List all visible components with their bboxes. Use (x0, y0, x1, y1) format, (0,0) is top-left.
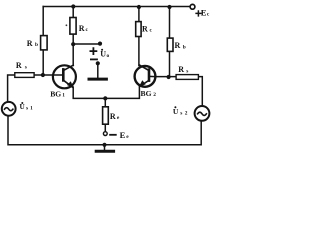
terminal -Ee (103, 132, 107, 136)
speck artifact left of Rc1 (66, 24, 68, 26)
ground mid (below -Uo terminal) (89, 61, 106, 79)
resistor Rc2 (136, 22, 141, 37)
svg-text:R: R (175, 41, 181, 50)
wire bottom ground rail with verticals to both sources (8, 116, 201, 145)
polarity sign + of Uo (90, 48, 96, 54)
svg-text:o: o (107, 53, 110, 59)
polarity sign + of Ec (196, 11, 201, 16)
terminal +Ec (190, 4, 195, 9)
svg-text:1: 1 (30, 105, 33, 111)
terminal +Uo (98, 42, 102, 46)
source Us2 (195, 106, 210, 121)
svg-text:U: U (100, 50, 106, 59)
node bottom rail ground junction (102, 143, 106, 147)
svg-text:s: s (180, 110, 182, 116)
node emitter junction (103, 96, 107, 100)
node base2 junction (167, 75, 171, 79)
source Us1 (2, 102, 16, 116)
wire Rb2 vertical (top rail to base node 2) (169, 7, 171, 77)
svg-text:1: 1 (62, 93, 65, 99)
ground bottom (96, 145, 113, 151)
polarity sign - of Uo (91, 58, 97, 60)
wire base lead right (BG2 base bar, through Rs2, corner down to Us2) (149, 76, 202, 106)
wire Rc2 vertical (top rail to BG2 collector) (138, 7, 140, 66)
wire emitter rail (BG1 emitter down, across, up to BG2 emitter) (73, 86, 139, 98)
svg-text:R: R (178, 65, 184, 74)
node top Rb2 junction (167, 5, 171, 9)
svg-text:BG: BG (141, 89, 152, 98)
resistor Rs2 (176, 75, 198, 80)
wire left branch vertical (top corner through Rb1 down to base node) (42, 7, 44, 76)
svg-text:2: 2 (153, 92, 156, 98)
svg-text:R: R (16, 61, 22, 70)
svg-text:s: s (25, 64, 27, 70)
resistor Re (103, 107, 109, 124)
svg-text:b: b (183, 44, 186, 50)
node top Rc1 junction (71, 4, 75, 8)
node collector1 Uo tap (71, 42, 75, 46)
node top Rc2 junction (137, 5, 141, 9)
resistor Rb1 (41, 36, 48, 50)
svg-text:s: s (26, 105, 28, 111)
svg-text:R: R (110, 112, 116, 121)
transistor BG1 (53, 65, 76, 88)
node base1 junction (41, 73, 45, 77)
svg-text:R: R (27, 39, 33, 48)
polarity sign - of Ee (110, 134, 116, 136)
svg-text:R: R (142, 25, 148, 34)
svg-text:BG: BG (50, 89, 61, 98)
svg-text:b: b (35, 42, 38, 48)
transistor BG2 (135, 65, 156, 87)
svg-text:E: E (201, 8, 207, 18)
svg-text:E: E (120, 130, 126, 140)
wire Uo tap (collector node to + terminal) (73, 43, 100, 45)
wire base lead left (corner, through Rs1, into BG1 base bar) (8, 75, 63, 102)
wire Rc1 vertical (top rail to BG1 collector) (72, 7, 74, 66)
svg-text:U: U (173, 107, 179, 116)
resistor Rc1 (70, 18, 76, 35)
svg-text:2: 2 (185, 110, 188, 116)
resistor Rb2 (167, 38, 173, 51)
svg-text:s: s (186, 68, 188, 74)
svg-text:R: R (79, 24, 85, 33)
resistor Rs1 (15, 73, 34, 78)
wire Re leads (104, 98, 106, 131)
wire top supply rail (43, 6, 190, 8)
